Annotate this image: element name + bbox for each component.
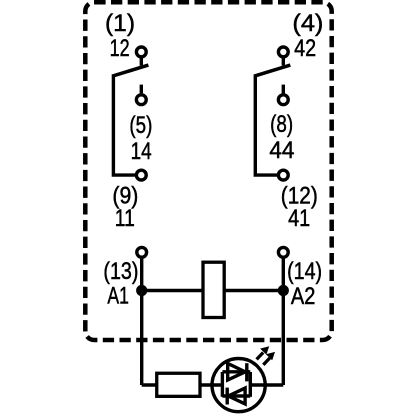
svg-text:14: 14	[131, 138, 152, 165]
svg-text:41: 41	[288, 205, 310, 232]
svg-text:42: 42	[294, 35, 316, 62]
svg-text:(5): (5)	[129, 112, 152, 139]
svg-text:11: 11	[115, 205, 135, 232]
svg-text:(4): (4)	[292, 10, 323, 37]
svg-text:A2: A2	[291, 283, 316, 310]
svg-text:(14): (14)	[287, 258, 322, 285]
svg-text:12: 12	[110, 35, 130, 62]
svg-text:(8): (8)	[270, 111, 293, 138]
svg-text:A1: A1	[107, 283, 128, 310]
svg-text:44: 44	[269, 137, 294, 164]
svg-text:(13): (13)	[103, 258, 138, 285]
svg-text:(1): (1)	[105, 10, 135, 37]
